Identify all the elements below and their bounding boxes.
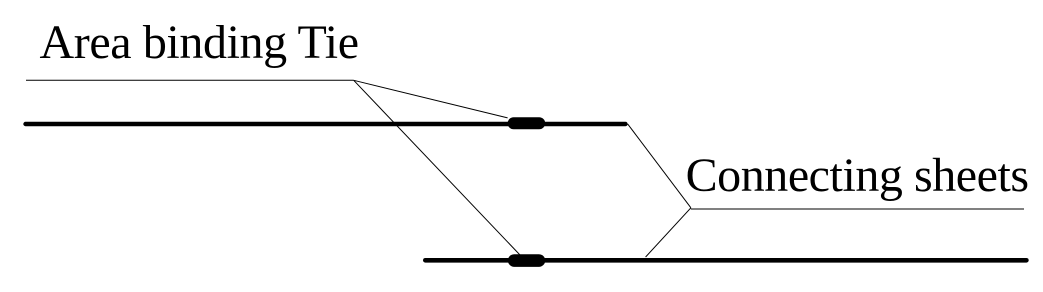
svg-text:Area binding Tie: Area binding Tie (40, 16, 360, 69)
leader line to upper tie (354, 80, 508, 118)
leader line from upper sheet end to junction (628, 124, 691, 208)
upper tie (508, 117, 546, 129)
upper sheet line (26, 122, 626, 126)
leader underline for "Connecting sheets" (691, 208, 1024, 210)
leader line from junction to lower sheet (646, 208, 691, 257)
lower sheet line (425, 258, 1026, 263)
lower tie (508, 254, 545, 267)
leader line to lower tie (354, 80, 520, 255)
svg-text:Connecting sheets: Connecting sheets (686, 149, 1030, 202)
leader underline for "Area binding Tie" (26, 79, 354, 81)
